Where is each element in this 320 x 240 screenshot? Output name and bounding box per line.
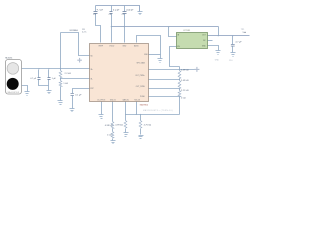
svg-text:OUT_PWM+: OUT_PWM+ xyxy=(135,75,145,77)
svg-text:2.2 k: 2.2 k xyxy=(82,31,86,33)
svg-text:MIC1 CMC: MIC1 CMC xyxy=(5,58,13,60)
svg-text:2.21 kΩ: 2.21 kΩ xyxy=(181,90,189,92)
svg-text:4.7 µF: 4.7 µF xyxy=(235,42,242,44)
svg-text:100 µF: 100 µF xyxy=(126,9,134,11)
svg-text:4.99 kΩ: 4.99 kΩ xyxy=(115,125,123,127)
svg-text:2.49 kΩ: 2.49 kΩ xyxy=(181,80,189,82)
svg-text:OUT_PWM-: OUT_PWM- xyxy=(136,86,146,88)
svg-text:1 µF: 1 µF xyxy=(52,78,57,80)
svg-text:PGND: PGND xyxy=(140,96,146,98)
svg-text:DVDD: DVDD xyxy=(109,45,115,47)
svg-text:OUT: OUT xyxy=(202,35,206,37)
svg-text:VREF: VREF xyxy=(98,45,103,47)
svg-text:4.75 kΩ: 4.75 kΩ xyxy=(144,125,152,127)
svg-text:LP2985: LP2985 xyxy=(183,30,191,32)
svg-text:4.99 kΩ: 4.99 kΩ xyxy=(105,125,113,127)
svg-text:4.7 µF: 4.7 µF xyxy=(97,9,104,11)
svg-text:0.1 µF: 0.1 µF xyxy=(75,95,82,97)
svg-text:2 kΩ: 2 kΩ xyxy=(181,98,186,100)
svg-text:2.2 kΩ: 2.2 kΩ xyxy=(65,73,72,75)
svg-text:C10: C10 xyxy=(229,60,232,62)
svg-text:1 kΩ: 1 kΩ xyxy=(107,135,112,137)
svg-text:1 kΩ: 1 kΩ xyxy=(63,83,68,85)
svg-text:GND: GND xyxy=(215,60,220,62)
svg-text:IN+: IN+ xyxy=(90,69,93,71)
svg-text:Vdd: Vdd xyxy=(243,32,247,34)
svg-text:4.7 µF: 4.7 µF xyxy=(30,78,37,80)
svg-text:2.49 kΩ: 2.49 kΩ xyxy=(181,70,189,72)
svg-text:0.1 µF: 0.1 µF xyxy=(113,9,120,11)
